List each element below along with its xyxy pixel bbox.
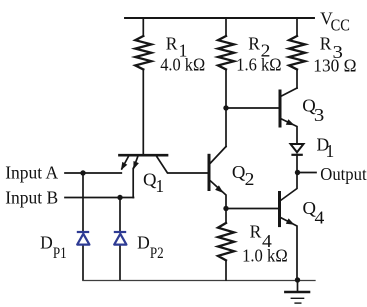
svg-text:P1: P1 <box>53 245 67 262</box>
svg-text:3: 3 <box>314 105 325 125</box>
svg-text:D: D <box>137 233 150 253</box>
svg-text:1.6 kΩ: 1.6 kΩ <box>236 55 281 75</box>
svg-text:130 Ω: 130 Ω <box>313 55 356 75</box>
svg-text:4: 4 <box>315 208 325 228</box>
svg-text:2: 2 <box>245 169 255 189</box>
svg-text:R: R <box>248 33 260 53</box>
svg-text:4.0 kΩ: 4.0 kΩ <box>160 55 205 75</box>
svg-text:P2: P2 <box>150 245 164 262</box>
svg-text:R: R <box>320 33 332 53</box>
svg-text:CC: CC <box>331 16 350 35</box>
svg-text:1: 1 <box>326 141 335 161</box>
svg-text:R: R <box>166 33 178 53</box>
svg-text:R: R <box>250 222 262 242</box>
svg-text:1: 1 <box>155 176 164 196</box>
svg-text:1.0 kΩ: 1.0 kΩ <box>242 246 288 266</box>
svg-text:Input A: Input A <box>5 162 58 182</box>
svg-text:Input B: Input B <box>5 187 58 207</box>
svg-text:Output: Output <box>320 164 366 184</box>
svg-text:D: D <box>40 233 53 253</box>
